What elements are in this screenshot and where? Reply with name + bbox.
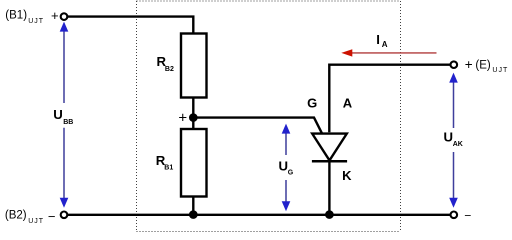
svg-text:UJT: UJT	[28, 18, 44, 25]
svg-text:U: U	[444, 129, 454, 144]
svg-text:I: I	[376, 32, 380, 47]
terminal B1 (open circle)	[61, 13, 68, 20]
svg-text:A: A	[382, 40, 388, 49]
wire: RB2 bottom to gate node	[192, 98, 194, 118]
svg-text:−: −	[464, 209, 471, 223]
label (B2)UJT -	[5, 209, 56, 225]
label (B1)UJT +	[5, 8, 58, 25]
resistor RB2	[181, 34, 207, 98]
svg-text:AK: AK	[453, 141, 463, 148]
voltage arrow UG (double-headed, up/down)	[282, 124, 291, 212]
wire: cathode to B2 rail	[328, 161, 330, 214]
label UBB	[53, 107, 73, 126]
terminal B2 (open circle)	[61, 212, 68, 219]
wire: node to resistor RB1 top	[192, 118, 194, 129]
label UG	[279, 158, 294, 176]
svg-text:G: G	[288, 170, 294, 177]
voltage arrow UBB (double-headed, up/down)	[60, 22, 69, 208]
label + (E)UJT	[465, 57, 509, 74]
UJT equivalent-circuit boundary (dotted box)	[137, 1, 401, 232]
voltage arrow UAK (double-headed, up/down)	[449, 73, 458, 208]
label RB1	[156, 153, 174, 172]
current arrow IA (red, pointing left)	[341, 49, 436, 56]
svg-text:K: K	[342, 168, 352, 183]
junction: cathode / B2 rail	[325, 210, 334, 219]
svg-text:U: U	[279, 158, 289, 173]
svg-text:(E): (E)	[475, 59, 491, 71]
junction: RB1 / B2 rail	[189, 210, 198, 219]
thyristor cathode bar	[312, 160, 347, 163]
svg-text:U: U	[53, 107, 63, 122]
svg-text:(B2): (B2)	[5, 209, 27, 221]
node: gate junction (+)	[189, 113, 198, 122]
svg-text:+: +	[51, 8, 59, 23]
wire: bottom B2 rail	[67, 214, 450, 216]
svg-text:+: +	[465, 57, 473, 72]
svg-text:A: A	[343, 96, 353, 111]
svg-text:−: −	[48, 209, 56, 224]
svg-text:B2: B2	[165, 66, 174, 73]
label UAK	[444, 129, 463, 148]
svg-text:+: +	[178, 109, 187, 126]
svg-text:B1: B1	[164, 165, 173, 172]
wire: anode top lead, E terminal to thyristor	[329, 65, 450, 133]
thyristor D1 (diode triangle)	[312, 134, 347, 161]
svg-text:(B1): (B1)	[5, 10, 27, 22]
wire: gate lead from node to thyristor	[196, 118, 322, 134]
terminal E (open circle)	[451, 61, 458, 68]
resistor RB1	[181, 129, 207, 197]
label RB2	[157, 54, 174, 73]
svg-text:UJT: UJT	[28, 218, 44, 225]
label IA	[376, 32, 388, 49]
wire: B1 terminal to resistor RB2 top	[67, 17, 193, 34]
svg-text:G: G	[307, 96, 317, 111]
svg-text:BB: BB	[63, 119, 73, 126]
svg-text:UJT: UJT	[492, 67, 508, 74]
terminal bottom-right (open circle)	[451, 212, 458, 219]
wire: RB1 bottom to B2 rail	[192, 197, 194, 215]
